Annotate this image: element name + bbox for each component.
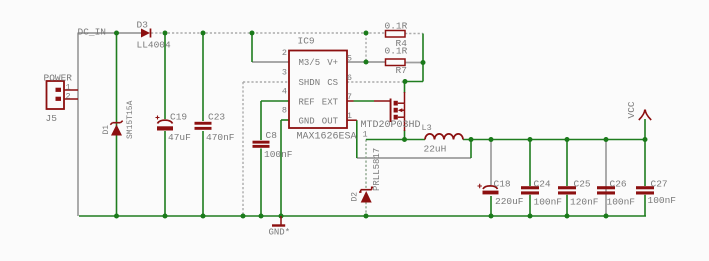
svg-text:0.1R: 0.1R — [385, 46, 408, 57]
svg-text:REF: REF — [299, 98, 315, 108]
svg-text:220uF: 220uF — [495, 196, 524, 207]
svg-text:7: 7 — [347, 92, 352, 102]
svg-text:C19: C19 — [170, 112, 187, 123]
svg-text:GND: GND — [299, 117, 315, 127]
svg-text:D1: D1 — [102, 125, 111, 135]
svg-text:MTD20P03HD: MTD20P03HD — [361, 120, 421, 131]
svg-text:22uH: 22uH — [424, 144, 447, 155]
svg-text:1: 1 — [363, 130, 368, 140]
svg-text:SM15T15A: SM15T15A — [126, 100, 135, 139]
svg-text:2: 2 — [282, 48, 287, 58]
svg-text:C25: C25 — [574, 179, 591, 190]
svg-text:EXT: EXT — [322, 98, 339, 108]
svg-text:LL4004: LL4004 — [137, 40, 172, 51]
svg-text:1: 1 — [347, 111, 352, 121]
svg-text:0.1R: 0.1R — [385, 21, 408, 32]
svg-text:GND*: GND* — [269, 228, 291, 238]
svg-text:OUT: OUT — [322, 117, 339, 127]
svg-text:VCC: VCC — [626, 101, 637, 118]
svg-text:100nF: 100nF — [264, 149, 293, 160]
svg-text:470nF: 470nF — [206, 132, 235, 143]
svg-text:V+: V+ — [327, 58, 338, 68]
svg-text:120nF: 120nF — [570, 197, 599, 208]
svg-text:R7: R7 — [396, 65, 407, 76]
svg-text:C18: C18 — [494, 179, 511, 190]
svg-text:6: 6 — [347, 73, 352, 83]
svg-text:L3: L3 — [422, 123, 432, 133]
svg-text:D2: D2 — [351, 192, 360, 202]
svg-text:IC9: IC9 — [298, 36, 315, 47]
svg-text:J5: J5 — [46, 113, 58, 124]
svg-text:D3: D3 — [137, 20, 149, 31]
svg-text:100nF: 100nF — [607, 197, 636, 208]
svg-text:C8: C8 — [266, 130, 278, 141]
svg-text:MAX1626ESA: MAX1626ESA — [297, 132, 357, 143]
svg-text:100nF: 100nF — [648, 195, 677, 206]
svg-text:C26: C26 — [610, 179, 627, 190]
svg-text:3: 3 — [282, 68, 287, 78]
svg-text:C27: C27 — [651, 179, 668, 190]
svg-text:DC_IN: DC_IN — [78, 27, 107, 38]
svg-text:4: 4 — [282, 87, 287, 97]
svg-text:C23: C23 — [208, 112, 225, 123]
svg-text:CS: CS — [327, 78, 338, 88]
svg-text:5: 5 — [347, 54, 352, 64]
svg-text:C24: C24 — [534, 179, 551, 190]
svg-text:M3/5: M3/5 — [299, 58, 321, 68]
svg-text:47uF: 47uF — [168, 132, 191, 143]
svg-text:8: 8 — [282, 106, 287, 116]
svg-text:100nF: 100nF — [534, 197, 563, 208]
svg-text:PRLL5817: PRLL5817 — [372, 148, 382, 191]
svg-text:2: 2 — [66, 92, 71, 102]
svg-text:SHDN: SHDN — [299, 78, 321, 88]
